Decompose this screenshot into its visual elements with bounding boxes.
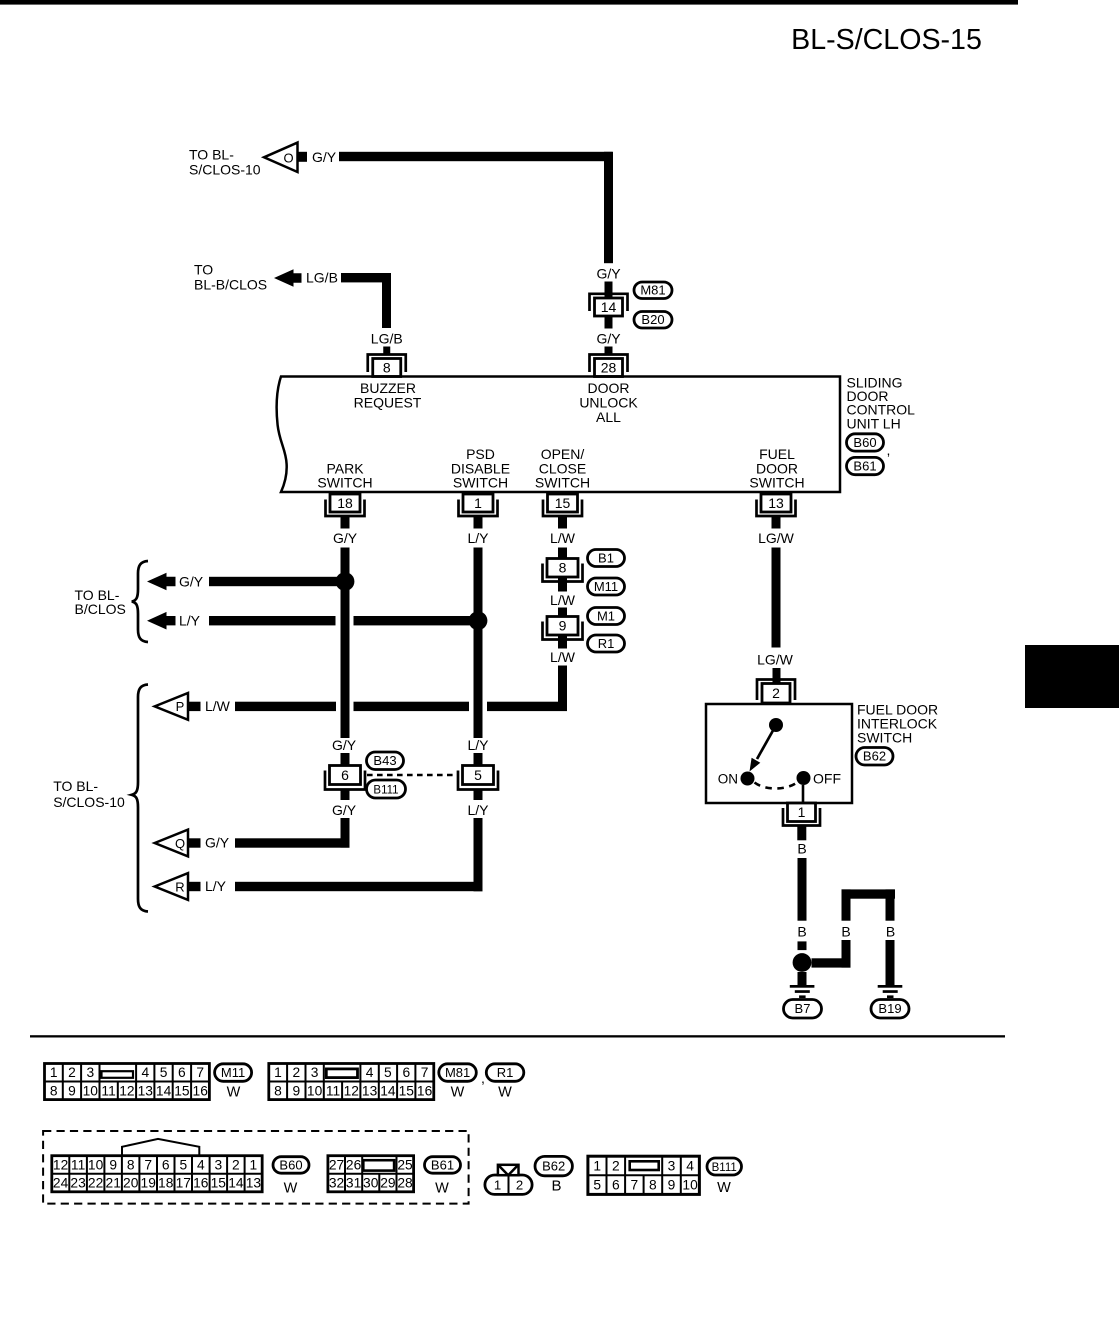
wire stub below pin 1 <box>474 516 483 529</box>
svg-text:G/Y: G/Y <box>312 149 337 165</box>
svg-text:15: 15 <box>174 1083 190 1098</box>
node R (page connector triangle) <box>155 873 201 900</box>
svg-text:26: 26 <box>346 1157 362 1172</box>
svg-text:1: 1 <box>494 1177 501 1192</box>
svg-text:19: 19 <box>141 1176 157 1191</box>
junction dot on G/Y wire <box>336 572 355 591</box>
svg-text:LG/B: LG/B <box>371 331 403 347</box>
wire stub below pin 1 <box>797 826 806 841</box>
connector view B61 grid <box>328 1156 414 1192</box>
brace for TO BL-B/CLOS <box>132 561 148 642</box>
connector oval M11 (view) <box>215 1064 252 1082</box>
svg-text:B: B <box>551 1178 561 1195</box>
wire G/Y horizontal (Q row) <box>235 838 350 847</box>
svg-text:7: 7 <box>196 1065 204 1080</box>
svg-text:L/W: L/W <box>205 698 231 714</box>
label PSD DISABLE SWITCH <box>451 446 510 491</box>
connector 14 (in-line, M81/B20) <box>590 294 628 316</box>
svg-text:L/W: L/W <box>550 649 576 665</box>
svg-text:1: 1 <box>50 1065 58 1080</box>
dashed box around B60/B61 views <box>43 1131 469 1204</box>
svg-text:6: 6 <box>402 1065 410 1080</box>
svg-text:3: 3 <box>311 1065 319 1080</box>
svg-text:UNIT LH: UNIT LH <box>847 415 901 431</box>
wire stub below pin 13 <box>772 516 781 529</box>
svg-text:10: 10 <box>307 1083 323 1098</box>
label PARK SWITCH <box>317 460 372 490</box>
svg-text:1: 1 <box>593 1159 601 1174</box>
svg-text:L/Y: L/Y <box>205 878 227 894</box>
svg-text:14: 14 <box>156 1083 172 1098</box>
connector oval B111 (link) <box>367 780 406 798</box>
svg-text:3: 3 <box>214 1157 222 1172</box>
wire G/Y vertical down to connector 14 <box>604 152 613 263</box>
svg-text:TO BL-: TO BL- <box>189 147 234 163</box>
svg-text:M11: M11 <box>221 1065 245 1080</box>
svg-text:BL-B/CLOS: BL-B/CLOS <box>194 277 267 293</box>
svg-text:17: 17 <box>176 1176 191 1191</box>
svg-text:,: , <box>887 442 891 458</box>
svg-text:OFF: OFF <box>813 771 841 787</box>
svg-text:32: 32 <box>329 1176 344 1191</box>
label BUZZER REQUEST <box>354 380 422 410</box>
svg-text:7: 7 <box>421 1065 429 1080</box>
ground symbol B7 <box>790 985 815 998</box>
svg-text:W: W <box>435 1181 449 1197</box>
svg-text:30: 30 <box>363 1176 379 1191</box>
svg-text:S/CLOS-10: S/CLOS-10 <box>189 162 261 178</box>
sliding door control unit LH box <box>277 377 840 493</box>
svg-text:5: 5 <box>593 1178 601 1193</box>
svg-text:2: 2 <box>516 1177 523 1192</box>
svg-text:G/Y: G/Y <box>596 265 621 281</box>
wire stub into pin 8 <box>383 347 390 356</box>
wire B right leg to ground <box>886 940 895 985</box>
svg-text:O: O <box>283 150 293 165</box>
svg-text:B: B <box>797 840 806 856</box>
top border bar <box>0 0 1018 5</box>
wire stub into connector 9 <box>558 608 567 618</box>
label TO BL-S/CLOS-10 (top) <box>189 147 261 178</box>
label FUEL DOOR INTERLOCK SWITCH <box>857 702 938 746</box>
svg-text:7: 7 <box>630 1178 638 1193</box>
pin 1 fuel door interlock switch <box>783 803 820 826</box>
svg-text:LG/W: LG/W <box>758 530 795 546</box>
connector oval M1 <box>588 608 625 625</box>
connector 6 (B43/B111) <box>325 766 365 790</box>
ground symbol B19 <box>878 985 903 998</box>
svg-text:16: 16 <box>417 1083 433 1098</box>
svg-text:G/Y: G/Y <box>596 331 621 347</box>
svg-text:5: 5 <box>474 767 482 783</box>
svg-text:G/Y: G/Y <box>205 835 230 851</box>
node Q (page connector triangle) <box>155 830 201 857</box>
svg-text:TO BL-: TO BL- <box>53 778 98 794</box>
svg-text:B43: B43 <box>373 753 396 768</box>
connector oval M81 (view) <box>439 1064 477 1082</box>
junction dot on L/Y wire <box>469 611 488 630</box>
connector view B60 grid <box>52 1156 262 1192</box>
svg-text:10: 10 <box>682 1178 698 1193</box>
svg-text:B7: B7 <box>795 1001 811 1016</box>
svg-text:24: 24 <box>53 1176 69 1191</box>
wire L/W horizontal segment 1 <box>235 702 336 711</box>
wire stub into connector 5 <box>474 753 483 766</box>
svg-text:M11: M11 <box>594 579 618 594</box>
svg-text:TO: TO <box>194 262 213 278</box>
node P (page connector triangle) <box>155 693 201 720</box>
connector oval M11 (link) <box>588 578 625 595</box>
pin 8 BUZZER REQUEST <box>368 355 406 377</box>
svg-text:11: 11 <box>71 1157 85 1172</box>
svg-text:LG/W: LG/W <box>757 652 794 668</box>
connector oval B60 (view) <box>273 1157 309 1174</box>
svg-text:1: 1 <box>274 1065 282 1080</box>
svg-text:3: 3 <box>86 1065 94 1080</box>
svg-text:6: 6 <box>341 767 349 783</box>
switch pivot dot <box>769 718 783 732</box>
svg-text:W: W <box>227 1085 241 1101</box>
wire stub into connector 14 <box>605 282 613 299</box>
svg-text:18: 18 <box>158 1176 174 1191</box>
switch contact OFF dot <box>797 771 811 785</box>
svg-text:LG/B: LG/B <box>306 270 338 286</box>
svg-text:S/CLOS-10: S/CLOS-10 <box>53 794 125 810</box>
svg-text:M1: M1 <box>597 608 615 623</box>
svg-text:3: 3 <box>668 1159 676 1174</box>
page edge marker <box>1025 645 1119 708</box>
svg-text:1: 1 <box>798 804 806 820</box>
junction dot B <box>793 953 812 972</box>
connector oval R1 (link) <box>588 635 625 652</box>
wire OFF contact to pin 1 <box>802 785 805 803</box>
wire L/W vertical down to P row <box>558 666 567 712</box>
pin 13 at unit box bottom <box>757 494 796 516</box>
svg-text:7: 7 <box>144 1157 152 1172</box>
label SLIDING DOOR CONTROL UNIT LH <box>847 374 916 431</box>
svg-text:8: 8 <box>127 1157 135 1172</box>
svg-text:5: 5 <box>384 1065 392 1080</box>
svg-text:BL-S/CLOS-15: BL-S/CLOS-15 <box>791 24 982 56</box>
svg-text:21: 21 <box>106 1176 121 1191</box>
svg-text:B60: B60 <box>853 435 876 450</box>
svg-text:R1: R1 <box>598 636 615 651</box>
svg-text:13: 13 <box>138 1083 154 1098</box>
label TO BL-B/CLOS (upper left) <box>194 262 267 293</box>
svg-text:L/W: L/W <box>550 530 576 546</box>
label FUEL DOOR SWITCH <box>749 446 804 491</box>
svg-text:31: 31 <box>346 1176 361 1191</box>
svg-text:ON: ON <box>718 772 738 787</box>
svg-text:18: 18 <box>337 495 353 511</box>
svg-text:6: 6 <box>178 1065 186 1080</box>
svg-text:SWITCH: SWITCH <box>857 730 912 746</box>
svg-text:2: 2 <box>612 1159 620 1174</box>
pin 2 fuel door interlock switch <box>757 680 795 704</box>
svg-text:R1: R1 <box>497 1065 514 1080</box>
wire B top bar <box>842 889 896 898</box>
svg-text:SWITCH: SWITCH <box>453 475 508 491</box>
svg-text:13: 13 <box>246 1176 262 1191</box>
wire LG/B vertical down <box>382 273 391 328</box>
svg-text:28: 28 <box>601 359 617 375</box>
svg-text:22: 22 <box>88 1176 103 1191</box>
arrow to BL-B/CLOS (solid) <box>274 269 302 287</box>
svg-text:W: W <box>451 1085 465 1101</box>
svg-text:B/CLOS: B/CLOS <box>75 601 126 617</box>
separator line above connector views <box>30 1035 1005 1037</box>
connector oval B62 (switch) <box>856 748 893 766</box>
svg-text:L/Y: L/Y <box>467 530 489 546</box>
connector 9 (M1/R1) <box>543 617 583 640</box>
svg-text:2: 2 <box>292 1065 300 1080</box>
wire G/Y vertical from pin 18 <box>341 548 350 739</box>
svg-text:G/Y: G/Y <box>333 530 358 546</box>
wire B middle leg upper <box>842 889 851 920</box>
svg-text:REQUEST: REQUEST <box>354 394 422 410</box>
svg-text:9: 9 <box>292 1083 300 1098</box>
switch blade with arrowhead <box>750 726 776 772</box>
svg-text:B61: B61 <box>431 1157 454 1172</box>
wire stub below connector 6 <box>341 790 350 801</box>
wire G/Y horizontal from O to connector M81/B20 column <box>339 152 613 161</box>
svg-text:14: 14 <box>228 1176 244 1191</box>
wire G/Y vertical to Q row <box>341 818 350 848</box>
svg-text:4: 4 <box>141 1065 149 1080</box>
connector view B111 grid <box>588 1156 699 1194</box>
pin 15 at unit box bottom <box>543 494 582 516</box>
svg-text:L/W: L/W <box>550 592 576 608</box>
svg-text:ALL: ALL <box>596 409 621 425</box>
svg-text:6: 6 <box>162 1157 170 1172</box>
svg-text:23: 23 <box>70 1176 86 1191</box>
svg-text:B: B <box>841 924 850 940</box>
svg-text:10: 10 <box>83 1083 99 1098</box>
svg-text:25: 25 <box>397 1157 413 1172</box>
svg-text:SWITCH: SWITCH <box>317 475 372 491</box>
svg-text:SWITCH: SWITCH <box>749 475 804 491</box>
wire L/W horizontal segment 2 <box>354 702 470 711</box>
svg-text:B111: B111 <box>712 1162 737 1174</box>
label TO BL-S/CLOS-10 (left brace) <box>53 778 125 810</box>
svg-text:9: 9 <box>668 1178 676 1193</box>
wire stub below connector 5 <box>474 790 483 801</box>
connector oval B60 (unit) <box>847 434 884 451</box>
connector 5 (B43/B111) <box>458 766 498 790</box>
wire stub into pin 2 <box>773 668 781 684</box>
svg-text:8: 8 <box>50 1083 58 1098</box>
wire stub into connector 8 <box>558 548 567 560</box>
svg-text:L/Y: L/Y <box>179 613 201 629</box>
connector oval B1 <box>588 550 625 567</box>
svg-text:8: 8 <box>274 1083 282 1098</box>
svg-text:G/Y: G/Y <box>332 737 357 753</box>
svg-text:B1: B1 <box>598 550 614 565</box>
svg-text:8: 8 <box>649 1178 657 1193</box>
svg-text:4: 4 <box>366 1065 374 1080</box>
svg-text:W: W <box>717 1180 731 1196</box>
wire B right leg upper <box>886 889 895 920</box>
svg-text:5: 5 <box>179 1157 187 1172</box>
connector 8 (B1/M11) <box>543 559 583 582</box>
wire G/Y horizontal to junction dot <box>209 577 345 586</box>
svg-text:,: , <box>481 1070 485 1086</box>
wire B stub above junction dot <box>798 941 807 950</box>
svg-text:12: 12 <box>119 1083 134 1098</box>
connector view B62 (1 2 stadium) <box>485 1175 532 1194</box>
connector oval B111 (view) <box>707 1158 742 1175</box>
wire stub into pin 28 <box>605 347 613 356</box>
wire L/W horizontal segment 3 (corner to connector 9) <box>487 702 567 711</box>
svg-text:8: 8 <box>383 359 391 375</box>
svg-text:28: 28 <box>397 1176 413 1191</box>
svg-text:B61: B61 <box>853 458 876 473</box>
svg-text:10: 10 <box>88 1157 104 1172</box>
wire L/Y horizontal (R row) <box>235 882 483 891</box>
connector view M11 grid <box>45 1064 210 1100</box>
svg-text:14: 14 <box>380 1083 396 1098</box>
svg-text:12: 12 <box>344 1083 359 1098</box>
svg-text:16: 16 <box>193 1176 209 1191</box>
connector oval R1 (view) <box>486 1064 524 1082</box>
svg-text:29: 29 <box>380 1176 396 1191</box>
wire L/Y horizontal left segment <box>209 616 336 625</box>
svg-text:14: 14 <box>601 299 617 315</box>
svg-text:11: 11 <box>326 1083 340 1098</box>
svg-text:9: 9 <box>68 1083 76 1098</box>
connector oval B43 <box>367 752 404 770</box>
svg-text:2: 2 <box>68 1065 76 1080</box>
svg-text:R: R <box>175 879 184 894</box>
connector oval M81 <box>634 282 672 299</box>
svg-text:B60: B60 <box>279 1157 302 1172</box>
svg-text:B: B <box>886 924 895 940</box>
svg-text:11: 11 <box>101 1083 115 1098</box>
svg-text:L/Y: L/Y <box>467 737 489 753</box>
wire stub below connector 14 <box>605 316 613 329</box>
svg-text:1: 1 <box>250 1157 258 1172</box>
wire stub below pin 15 <box>558 516 567 529</box>
wire B middle leg lower <box>842 940 851 968</box>
wire LG/W vertical from pin 13 <box>772 548 781 648</box>
svg-text:4: 4 <box>686 1159 694 1174</box>
svg-text:1: 1 <box>474 495 482 511</box>
svg-text:9: 9 <box>559 618 567 634</box>
wire stub below pin 18 <box>341 516 350 529</box>
svg-text:B62: B62 <box>863 749 886 764</box>
svg-text:M81: M81 <box>640 283 665 298</box>
arrow G/Y to BL-B/CLOS (solid) <box>147 573 176 591</box>
node O (page connector triangle) <box>264 143 307 172</box>
svg-text:12: 12 <box>53 1157 68 1172</box>
ground oval B7 <box>784 1000 822 1019</box>
svg-text:B62: B62 <box>542 1159 565 1174</box>
svg-text:SWITCH: SWITCH <box>535 475 590 491</box>
svg-text:B: B <box>797 924 806 940</box>
svg-text:M81: M81 <box>445 1065 470 1080</box>
svg-text:W: W <box>498 1085 512 1101</box>
svg-text:L/Y: L/Y <box>467 802 489 818</box>
svg-text:15: 15 <box>211 1176 227 1191</box>
keying tab above B62 view <box>498 1165 519 1175</box>
svg-text:15: 15 <box>555 495 571 511</box>
label OPEN/CLOSE SWITCH <box>535 446 590 491</box>
svg-text:16: 16 <box>193 1083 209 1098</box>
svg-text:G/Y: G/Y <box>332 802 357 818</box>
label DOOR UNLOCK ALL <box>579 380 638 425</box>
svg-text:2: 2 <box>232 1157 240 1172</box>
connector view M81 grid <box>269 1064 434 1100</box>
svg-text:15: 15 <box>399 1083 415 1098</box>
keying tab above B60 view <box>122 1139 199 1156</box>
brace for TO BL-S/CLOS-10 <box>132 685 148 912</box>
fuel door interlock switch box <box>706 704 852 803</box>
svg-text:6: 6 <box>612 1178 620 1193</box>
svg-text:B19: B19 <box>878 1001 901 1016</box>
svg-text:B111: B111 <box>373 784 398 796</box>
wire L/Y vertical from pin 1 <box>474 548 483 739</box>
wire B horizontal from dot <box>812 958 851 967</box>
pin 18 at unit box bottom <box>326 494 365 516</box>
wire B vertical (main) <box>798 858 807 921</box>
svg-text:13: 13 <box>362 1083 378 1098</box>
svg-text:Q: Q <box>175 836 185 851</box>
wire stub into connector 6 <box>341 753 350 766</box>
wire L/Y horizontal right segment to junction dot <box>354 616 483 625</box>
pin 1 at unit box bottom <box>459 494 498 516</box>
wire LG/B horizontal <box>341 273 391 282</box>
wire stub below connector 8 <box>558 577 567 592</box>
svg-text:B20: B20 <box>641 312 664 327</box>
wire L/Y vertical to R row <box>474 818 483 891</box>
svg-text:W: W <box>284 1181 298 1197</box>
svg-text:P: P <box>176 699 185 714</box>
dashed throw arc <box>755 783 798 789</box>
svg-text:G/Y: G/Y <box>179 573 204 589</box>
wire B stub to ground B7 <box>798 972 807 985</box>
arrow L/Y to BL-B/CLOS (solid) <box>147 612 176 630</box>
svg-text:2: 2 <box>772 685 780 701</box>
connector oval B62 (view) <box>535 1156 572 1175</box>
pin 28 DOOR UNLOCK ALL <box>590 355 628 377</box>
connector oval B61 (view) <box>425 1157 461 1174</box>
label TO BL-B/CLOS (left brace) <box>75 587 126 617</box>
svg-text:5: 5 <box>160 1065 168 1080</box>
svg-text:20: 20 <box>123 1176 139 1191</box>
svg-text:27: 27 <box>329 1157 344 1172</box>
dashed link between connector 6 and 5 <box>367 774 457 777</box>
svg-text:4: 4 <box>197 1157 205 1172</box>
connector oval B20 <box>634 312 672 329</box>
svg-text:8: 8 <box>559 560 567 576</box>
switch contact ON dot <box>741 772 755 786</box>
ground oval B19 <box>871 1000 909 1019</box>
connector oval B61 (unit) <box>847 457 884 474</box>
wire stub below connector 9 <box>558 635 567 649</box>
svg-text:13: 13 <box>768 495 784 511</box>
svg-text:9: 9 <box>109 1157 117 1172</box>
